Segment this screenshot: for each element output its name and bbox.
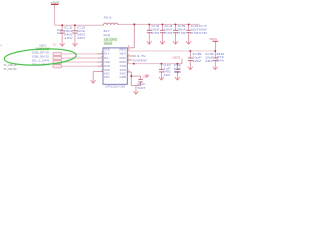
svg-text:16V: 16V [205,59,214,63]
svg-text:C9: C9 [205,52,215,56]
capacitor C3 [147,23,152,38]
C5 value labels [177,24,187,35]
svg-text:C1: C1 [64,26,74,30]
svg-text:X7R: X7R [151,31,159,35]
C3 value labels [151,24,161,35]
wire VDD33 tap up [181,59,183,64]
svg-text:X7R: X7R [190,31,198,35]
capacitor C2 [72,24,77,40]
svg-text:USB_DP 26: USB_DP 26 [32,50,50,54]
capacitor C10 [159,63,164,76]
C7 value labels [199,24,209,35]
svg-text:USB-C: USB-C [39,43,46,47]
svg-text:RST: RST [120,57,127,60]
svg-text:SD_1_DP4: SD_1_DP4 [32,59,50,63]
capacitor C10 ground [159,75,164,80]
filter pill row 3 [53,60,62,63]
svg-text:VDD: VDD [104,61,110,64]
C4 value labels [164,24,174,35]
filter pill row 4 [53,65,62,68]
svg-text:X7R: X7R [199,31,207,35]
svg-text:0402: 0402 [64,32,73,36]
capacitor C2 ground [72,41,77,47]
wire top 3V3 rail left [55,24,104,26]
svg-text:10uF: 10uF [205,55,214,59]
RST net label [133,55,148,58]
svg-text:D-: D- [104,57,110,60]
inductor FB1 ferrite bead [104,23,119,25]
wire VDD to pin [127,47,134,49]
svg-text:TXD: TXD [120,65,127,68]
capacitor C6 ground [186,39,191,45]
svg-text:02GM: 02GM [104,42,112,46]
C8 value labels [192,52,202,63]
svg-text:RXD: RXD [104,65,110,68]
C9 value labels [205,52,215,63]
svg-text:TANT: TANT [137,87,146,90]
wire gnd join [131,86,140,89]
pin 2 GND wire [93,72,103,78]
svg-text:C2: C2 [77,26,87,30]
svg-text:C5: C5 [177,24,187,28]
ground left [91,77,96,83]
annotation ellipse [4,47,77,67]
capacitor C11 ground [175,75,180,80]
svg-text:X5R: X5R [174,71,181,74]
svg-text:0402: 0402 [77,32,86,36]
ground bottom [133,88,138,94]
svg-text:DCD: DCD [104,49,110,52]
svg-text:X7R: X7R [164,31,172,35]
C6 value labels [190,24,200,35]
capacitor C5 [173,23,178,38]
svg-text:GND: GND [120,76,127,79]
capacitor C8 [188,50,193,64]
C12 bottom stem [140,82,142,86]
wire USB row 3 [62,61,103,63]
svg-text:16V: 16V [192,59,202,63]
svg-text:FB1 1k: FB1 1k [104,16,112,20]
R9 value labels [216,53,225,63]
svg-text:PC_USB_DM: PC_USB_DM [4,67,17,71]
power VBUS bar [213,40,219,42]
svg-text:USB_DM 25: USB_DM 25 [32,54,50,58]
svg-text:4.7k: 4.7k [137,55,148,58]
svg-text:C4: C4 [164,24,174,28]
capacitor C12 [138,76,143,82]
U1 designator highlight [104,38,118,42]
pin 3 GND wire [127,72,140,86]
U1 left pin names [104,49,110,79]
svg-text:D+: D+ [104,53,110,56]
svg-text:100nF: 100nF [199,27,208,31]
svg-text:4k7: 4k7 [103,30,110,33]
svg-text:16V: 16V [163,74,171,77]
svg-text:100nF: 100nF [77,29,86,33]
svg-text:NC: NC [104,76,110,79]
C12 value labels [137,83,146,90]
svg-text:VBUS: VBUS [120,53,127,56]
svg-text:VBUS: VBUS [209,37,217,41]
svg-text:R3V: R3V [120,61,127,64]
svg-text:C8: C8 [192,52,202,56]
svg-text:10uF: 10uF [137,83,146,86]
svg-text:REG: REG [120,49,127,52]
svg-text:100nF: 100nF [164,27,173,31]
U1 right pin names [120,49,127,79]
svg-text:100nF: 100nF [177,27,186,31]
capacitor C1 ground [60,41,65,47]
capacitor C9 [213,50,218,64]
svg-text:C7: C7 [199,24,209,28]
svg-text:D1: D1 [53,44,57,47]
junction rail-VDD [133,23,135,25]
svg-text:100nF: 100nF [64,29,73,33]
wire USB row 4 [62,65,103,67]
svg-text:C3: C3 [151,24,161,28]
pin SUSPEND stub [127,59,133,61]
C1 value labels [64,26,74,40]
svg-text:U1 CP2: U1 CP2 [104,38,117,42]
svg-text:SUSPEND: SUSPEND [133,59,147,62]
svg-text:100nF: 100nF [151,27,160,31]
svg-text:X7R: X7R [177,31,185,35]
svg-text:5%: 5% [216,60,225,63]
filter pill row 1 [53,52,62,55]
C1 designator [57,29,64,35]
U1 value highlight [104,42,113,46]
C10 value labels [163,64,171,77]
wire VBUS [127,50,215,52]
wire VDD drop [133,24,135,47]
capacitor C1 [60,24,65,40]
wire top 3V3 rail right [118,23,200,25]
wire USB row 2 [62,57,103,59]
capacitor C5 ground [173,39,178,45]
op-amp U1 body [103,48,127,84]
svg-text:CP2102-GM: CP2102-GM [105,85,126,89]
capacitor C9 ground [213,64,218,70]
svg-text:<: < [0,44,2,48]
wire VBUS stem [214,42,216,51]
C11 value labels [174,64,182,74]
capacitor C11 [175,63,180,76]
capacitor C4 ground [160,39,165,45]
svg-text:VDD33: VDD33 [172,55,180,59]
power +3V3 bar [51,3,58,5]
wire USB row 1 [62,53,103,55]
no-ERC marker [145,74,149,78]
pin RST stub [127,55,133,57]
svg-text:10uF: 10uF [192,55,202,59]
svg-text:adj: adj [103,34,110,37]
TVS value highlight [36,47,50,51]
C2 value labels [77,26,87,40]
wire power stem [54,5,56,25]
svg-text:16V: 16V [77,36,86,40]
capacitor C6 [186,23,191,38]
svg-text:C12: C12 [142,76,147,79]
capacitor C3 ground [147,39,152,45]
svg-text:16V: 16V [64,36,73,40]
filter pill row 2 [53,56,62,59]
svg-text:100nF: 100nF [190,27,199,31]
wire VDD33 out [127,63,182,65]
capacitor C4 [160,23,165,38]
capacitor C8 ground [188,64,193,70]
